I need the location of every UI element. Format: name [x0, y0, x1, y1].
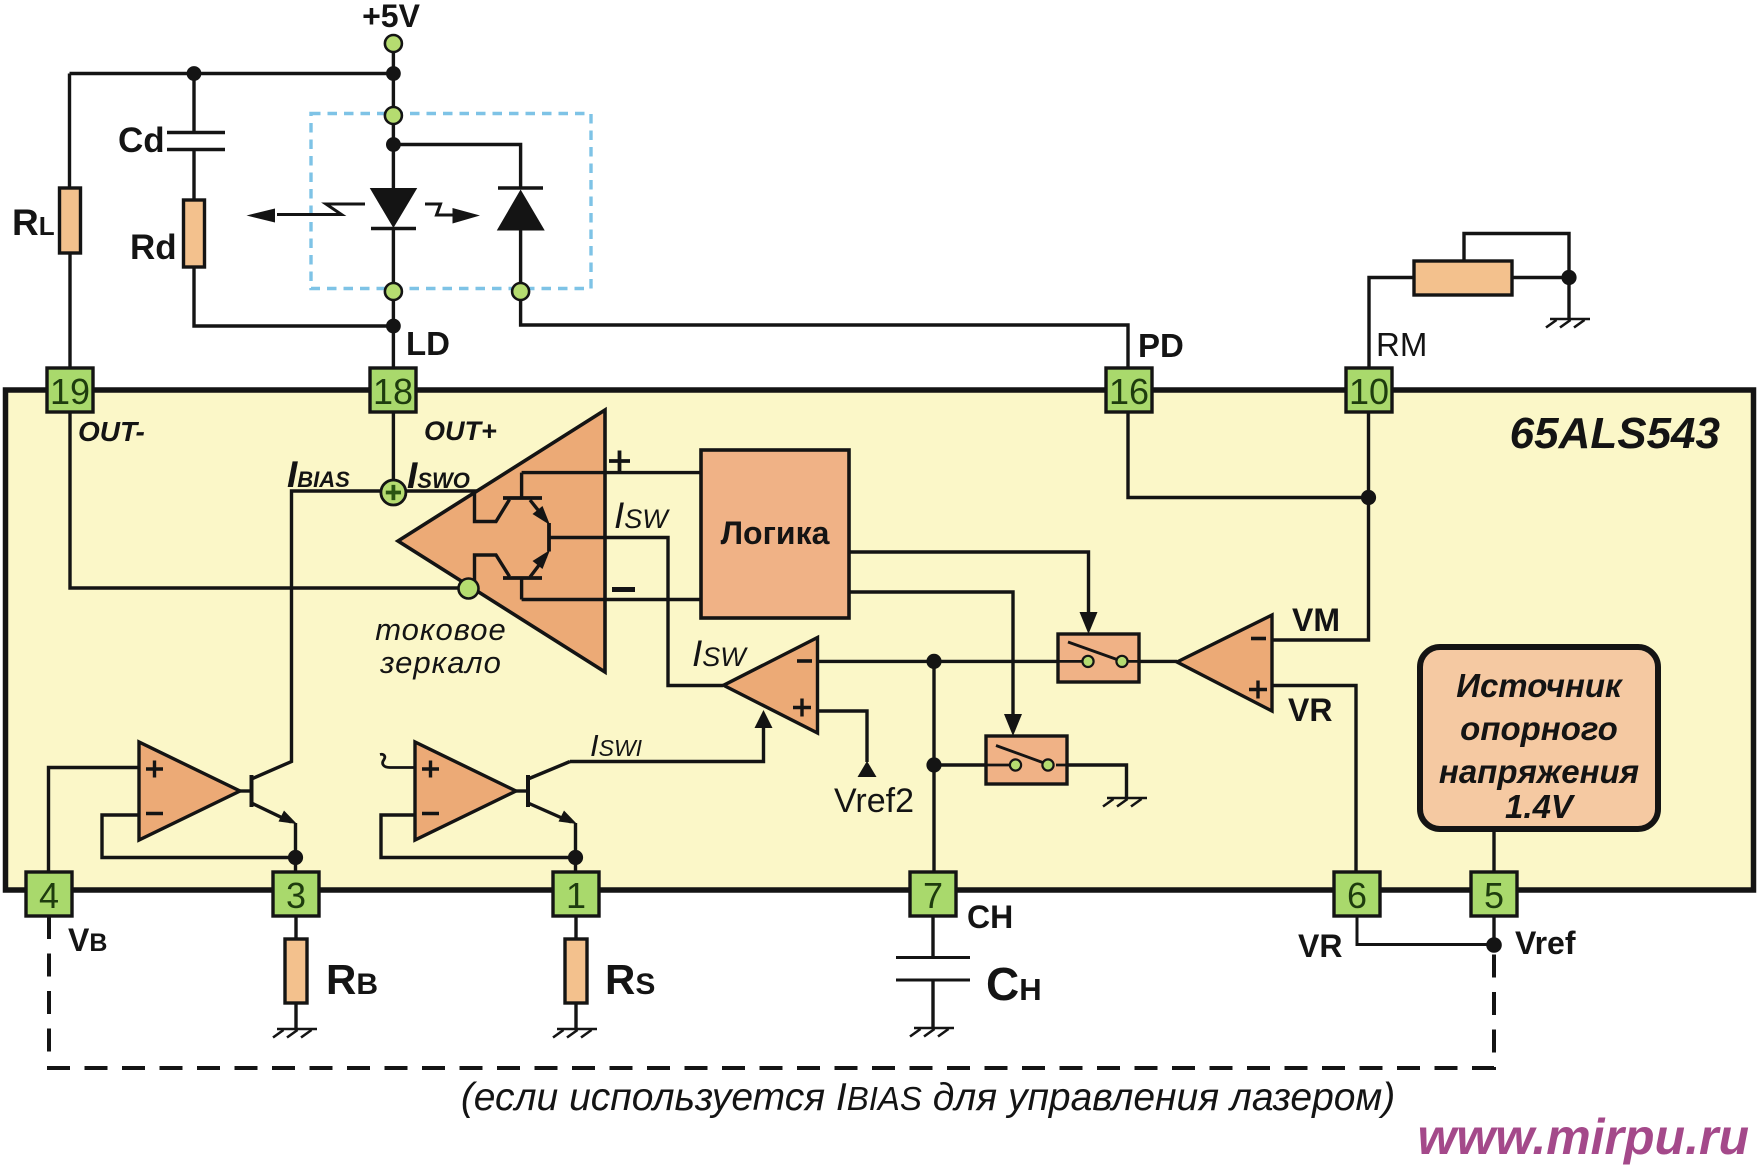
svg-text:www.mirpu.ru: www.mirpu.ru: [1418, 1109, 1750, 1165]
wire logic output 1 to switch S1: [849, 552, 1089, 615]
junction comparator input / CH: [926, 654, 941, 669]
wire Q2 emitter to pin 1: [574, 823, 577, 872]
wire top rail: [70, 72, 394, 75]
pin 3: [273, 872, 319, 916]
svg-text:18: 18: [373, 371, 413, 412]
pin 6: [1334, 872, 1380, 916]
wire pin6 VR to Vref node: [1357, 916, 1494, 945]
svg-text:VR: VR: [1288, 692, 1332, 728]
+5V supply terminal: [385, 35, 402, 52]
wire summing node to amp: [406, 489, 477, 492]
wire U4 minus feedback: [102, 815, 296, 858]
svg-text:6: 6: [1347, 875, 1367, 916]
svg-text:RM: RM: [1376, 326, 1427, 363]
ground Rs: [553, 1029, 597, 1038]
pin 4: [26, 872, 72, 916]
junction top rail / Cd: [187, 66, 202, 81]
resistor RL: [60, 188, 81, 253]
svg-text:7: 7: [923, 875, 943, 916]
svg-text:65ALS543: 65ALS543: [1510, 409, 1720, 458]
wire +5V to top rail: [392, 52, 395, 74]
svg-text:OUT+: OUT+: [424, 416, 497, 446]
pin 7: [910, 872, 956, 916]
node laser cathode terminal: [385, 283, 402, 300]
laser emission arrow right: [425, 204, 454, 215]
svg-text:RL: RL: [12, 202, 55, 243]
op-amp U4 bias amp: [139, 742, 240, 840]
wire Rd to LD node: [194, 267, 393, 326]
junction PD / VM net: [1361, 490, 1376, 505]
current mirror inside U1: [475, 473, 550, 600]
wire RM net pin 10 up: [1369, 278, 1414, 369]
svg-text:(если используется IBIAS для у: (если используется IBIAS для управления …: [461, 1076, 1395, 1119]
pin 18: [370, 368, 416, 412]
wire RM tap jumper: [1464, 234, 1569, 278]
svg-text:VR: VR: [1298, 928, 1342, 964]
svg-text:Источник: Источник: [1456, 667, 1624, 704]
wire pin1 to Rs: [574, 916, 577, 939]
wire S1 to VM comparator: [1139, 660, 1177, 663]
capacitor CH: [896, 958, 970, 981]
ground S2: [1103, 798, 1147, 807]
wire Q1 emitter to pin 3: [294, 823, 297, 872]
op-amp U5 switch amp: [415, 742, 516, 840]
junction CH / S2: [926, 757, 941, 772]
pin 16: [1106, 368, 1152, 412]
wire pin3 to RB: [294, 916, 297, 939]
wire OUT- net pin19 to mirror node: [70, 412, 458, 588]
svg-text:16: 16: [1109, 371, 1149, 412]
svg-text:VB: VB: [68, 922, 107, 958]
svg-text:4: 4: [39, 875, 59, 916]
wire VM plus to pin 6: [1272, 686, 1356, 873]
svg-text:1.4V: 1.4V: [1505, 788, 1576, 825]
transistor Q2: [516, 762, 571, 823]
svg-text:19: 19: [50, 371, 90, 412]
svg-text:LD: LD: [406, 325, 450, 362]
ground CH: [910, 1028, 954, 1037]
wire RM right lead: [1512, 276, 1569, 279]
wire logic output 2 to switch S2: [849, 592, 1013, 717]
svg-text:OUT-: OUT-: [78, 416, 145, 447]
junction Vref: [1486, 937, 1502, 953]
pin 19: [47, 368, 93, 412]
wire U4 plus to pin 4: [49, 768, 140, 873]
svg-text:Логика: Логика: [721, 515, 830, 551]
svg-text:зеркало: зеркало: [379, 645, 502, 680]
wire PD net to pin 16: [521, 300, 1128, 368]
capacitor Cd: [167, 133, 225, 150]
svg-text:CН: CН: [986, 958, 1042, 1010]
wire pin18 to summing node: [392, 412, 395, 479]
wire comparator plus to Vref2: [818, 711, 868, 762]
wire to photodiode cathode: [393, 145, 520, 189]
pin 1: [553, 872, 599, 916]
wire CH to ground: [931, 980, 934, 1027]
voltage reference source block: [1420, 647, 1658, 829]
wire pin10 to VM minus: [1272, 412, 1369, 640]
junction anode split: [386, 137, 401, 152]
svg-text:+5V: +5V: [362, 0, 420, 34]
node laser module anode terminal: [385, 107, 402, 124]
wire to LD junction: [392, 300, 395, 368]
node Vref2 arrow: [858, 761, 877, 777]
laser emission arrow left: [277, 204, 365, 215]
op-amp U3 VM comparator: [1177, 615, 1272, 711]
switch S1: [1058, 634, 1139, 682]
wire pin7 to CH cap: [931, 916, 934, 957]
laser diode VD1: [372, 189, 416, 226]
ground RM: [1546, 319, 1590, 328]
wire pin16 PD internal: [1128, 412, 1369, 498]
wire RB to ground: [294, 1003, 297, 1028]
wire RL to pin 19: [68, 253, 71, 368]
junction RM right node: [1561, 270, 1576, 285]
wire Cd to Rd: [192, 150, 195, 201]
svg-text:Cd: Cd: [118, 121, 165, 160]
svg-text:1: 1: [566, 875, 586, 916]
resistor RB: [285, 939, 307, 1003]
wire Cd branch: [192, 74, 195, 132]
svg-text:5: 5: [1484, 875, 1504, 916]
svg-text:PD: PD: [1138, 327, 1184, 364]
wire S2 to ground: [1067, 765, 1127, 797]
svg-text:Vref2: Vref2: [834, 782, 914, 820]
junction node LD: [386, 319, 401, 334]
svg-text:CH: CH: [967, 899, 1013, 935]
wire ISWI net to comparator: [570, 727, 764, 762]
wire U1 minus line to logic: [522, 598, 701, 601]
resistor Rd: [184, 200, 205, 267]
wire CH net junction to switch S2: [934, 661, 986, 872]
junction Q1 emitter / feedback: [288, 850, 303, 865]
junction Q2 emitter / feedback: [568, 850, 583, 865]
node summing junction: [381, 480, 406, 505]
svg-text:10: 10: [1349, 371, 1389, 412]
transistor Q1: [240, 775, 291, 822]
svg-text:токовое: токовое: [375, 612, 507, 647]
svg-text:RS: RS: [605, 956, 655, 1003]
wire U1 plus line to logic: [522, 471, 701, 474]
wire RM to ground: [1567, 278, 1570, 320]
wire U5 minus feedback: [381, 815, 576, 858]
comparator U2: [724, 638, 818, 734]
op-amp U1 output stage triangle: [398, 410, 605, 672]
wire comparator minus input: [818, 660, 1059, 663]
node photodiode terminal: [512, 283, 529, 300]
wire photodiode anode down: [519, 230, 522, 284]
wire RL branch down: [68, 74, 71, 189]
photodiode VD2: [498, 186, 543, 190]
svg-text:опорного: опорного: [1460, 710, 1618, 747]
resistor Rs: [565, 939, 587, 1003]
wire laser diode cathode down: [392, 229, 395, 284]
pin 10: [1346, 368, 1392, 412]
wire pin5 to Vref node: [1492, 916, 1495, 948]
wire ISW net to comparator: [549, 538, 723, 686]
svg-text:VM: VM: [1292, 602, 1340, 638]
junction top rail / +5V: [386, 66, 401, 81]
ground RB: [273, 1029, 317, 1038]
switch S2: [986, 736, 1067, 784]
svg-text:напряжения: напряжения: [1439, 753, 1639, 790]
pin 5: [1471, 872, 1517, 916]
laser module dashed box: [311, 114, 591, 289]
wire reference to pin 5: [1492, 829, 1495, 872]
svg-text:RB: RB: [326, 956, 378, 1003]
svg-text:Vref: Vref: [1515, 925, 1576, 961]
resistor RM: [1414, 261, 1512, 295]
svg-text:Rd: Rd: [130, 228, 177, 267]
wire U5 plus stub: [380, 754, 415, 767]
wire Rs to ground: [574, 1003, 577, 1028]
logic block: [701, 450, 849, 618]
node mirror output: [459, 579, 479, 599]
svg-text:3: 3: [286, 875, 306, 916]
wire IBIAS net: [252, 491, 382, 779]
IC body 65ALS543: [6, 390, 1754, 890]
wire anode into module: [392, 74, 395, 190]
wire IBIAS external dashed link: [49, 916, 1494, 1068]
